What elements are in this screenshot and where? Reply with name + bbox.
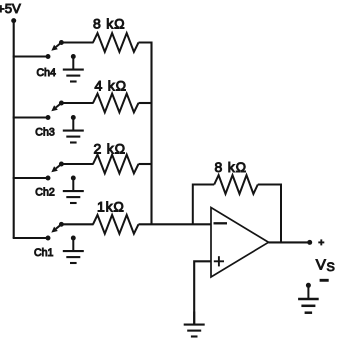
wire: Ch2 pole from +5V bus bbox=[13, 177, 47, 179]
resistor 1kΩ (Ch1 branch) bbox=[93, 215, 139, 234]
switch Ch1 arm bbox=[51, 224, 61, 232]
node: Vs reference bbox=[306, 283, 311, 288]
switch Ch4 arm bbox=[51, 43, 61, 51]
node: output terminal bbox=[307, 240, 312, 245]
wire: inverting input line bbox=[139, 223, 212, 225]
switch Ch3 arm bbox=[51, 103, 61, 111]
wire: Ch4 throw to resistor bbox=[61, 41, 93, 43]
switch Ch2 arm bbox=[51, 164, 61, 172]
svg-text:VS: VS bbox=[316, 257, 335, 274]
svg-text:Ch1: Ch1 bbox=[34, 247, 54, 259]
node: Ch3 switch pole bbox=[46, 115, 51, 120]
wire: Ch1 pole from +5V bus bbox=[13, 237, 47, 239]
ground: Ch1 alternate contact bbox=[63, 236, 84, 263]
resistor 2 kΩ (Ch2 branch) bbox=[93, 155, 139, 174]
ground: op-amp noninverting input bbox=[184, 312, 205, 337]
node: Ch2 switch pole bbox=[46, 176, 51, 181]
svg-text:Ch4: Ch4 bbox=[37, 67, 57, 79]
ground: Ch4 alternate contact bbox=[63, 54, 84, 81]
wire: +5V vertical bus bbox=[13, 21, 15, 238]
node: Ch4 switch pole bbox=[46, 54, 51, 59]
ground: Ch2 alternate contact bbox=[63, 176, 84, 203]
node: Ch2 switch throw bbox=[59, 162, 64, 167]
resistor 8 kΩ (Ch4 branch) bbox=[93, 33, 139, 52]
wire: Ch2 throw to resistor bbox=[61, 163, 93, 165]
wire: feedback left branch bbox=[193, 185, 214, 225]
svg-text:4 kΩ: 4 kΩ bbox=[95, 77, 127, 93]
wire: noninverting input to ground bbox=[194, 261, 211, 324]
label: - output polarity bbox=[320, 279, 329, 282]
svg-text:8 kΩ: 8 kΩ bbox=[93, 16, 125, 32]
node: Ch1 switch pole bbox=[46, 236, 51, 241]
svg-text:2 kΩ: 2 kΩ bbox=[94, 140, 126, 156]
wire: 4k lead to summing bus bbox=[139, 102, 153, 104]
svg-text:1kΩ: 1kΩ bbox=[97, 199, 125, 215]
wire: Ch1 throw to resistor bbox=[61, 223, 93, 225]
op-amp noninverting (+) marker bbox=[214, 256, 224, 266]
svg-text:Ch3: Ch3 bbox=[35, 126, 55, 138]
svg-text:Ch2: Ch2 bbox=[35, 187, 55, 199]
resistor 8 kΩ (feedback) bbox=[214, 175, 258, 194]
op-amp U1 bbox=[211, 208, 269, 278]
wire: Ch3 pole from +5V bus bbox=[13, 116, 47, 118]
wire: feedback right branch bbox=[258, 185, 281, 243]
wire: summing bus (right vertical) bbox=[139, 43, 152, 225]
wire: 2k lead to summing bus bbox=[139, 163, 153, 165]
svg-text:+5V: +5V bbox=[0, 1, 21, 16]
wire: Ch4 pole from +5V bus bbox=[13, 55, 47, 57]
ground: Ch3 alternate contact bbox=[63, 115, 84, 142]
node: Ch3 switch throw bbox=[59, 101, 64, 106]
op-amp inverting (-) marker bbox=[214, 222, 228, 224]
wire: op-amp output bbox=[269, 241, 310, 243]
node: Ch1 switch throw bbox=[59, 222, 64, 227]
svg-text:8 kΩ: 8 kΩ bbox=[215, 159, 247, 175]
label: + output polarity bbox=[318, 239, 324, 245]
node: +5V bus top bbox=[11, 18, 16, 23]
wire: Ch3 throw to resistor bbox=[61, 102, 93, 104]
resistor 4 kΩ (Ch3 branch) bbox=[93, 94, 139, 113]
ground: Vs reference bbox=[298, 285, 319, 312]
node: Ch4 switch throw bbox=[59, 40, 64, 45]
